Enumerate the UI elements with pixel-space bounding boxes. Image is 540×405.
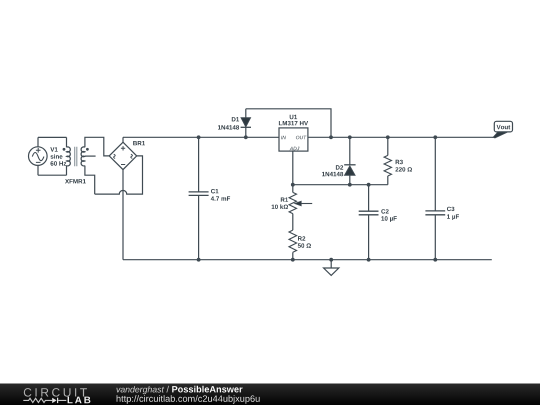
ground	[324, 260, 339, 276]
node bypass output junction	[329, 135, 333, 139]
label XFMR1	[65, 179, 86, 183]
node R3 top junction	[386, 135, 390, 139]
label D1 1N4148	[218, 117, 239, 130]
wire top rail left	[123, 136, 279, 138]
label R2 50 ohm	[298, 236, 311, 248]
capacitor C2	[359, 185, 379, 260]
label Vout	[497, 125, 511, 129]
node D2 top junction	[348, 135, 352, 139]
transformer XFMR1	[63, 137, 89, 175]
wire bottom rail	[123, 259, 492, 261]
footer credit text	[117, 386, 260, 404]
wire V1 top to transformer	[38, 136, 67, 138]
wire bridge bottom to ground rail	[122, 170, 124, 260]
pin ADJ	[290, 147, 300, 150]
node D1 output junction	[244, 135, 248, 139]
node D2 bottom junction	[348, 183, 352, 187]
wire R1 to R2	[292, 214, 294, 231]
footer bar	[0, 384, 540, 405]
wire bypass over U1	[246, 109, 331, 138]
wire V1 bottom to transformer	[38, 174, 67, 176]
node C3 bottom junction	[433, 258, 437, 262]
wire transformer secondary top to bridge	[85, 137, 109, 156]
potentiometer R1	[289, 185, 312, 214]
pin IN	[281, 136, 286, 139]
label V1 sine 60 Hz	[50, 147, 66, 165]
wire to bridge right terminal with hop	[95, 156, 143, 194]
node C2 bottom junction	[367, 258, 371, 262]
diode D2	[344, 137, 355, 184]
label C3 1 uF	[447, 207, 459, 220]
label D2 1N4148	[322, 165, 343, 176]
wire transformer secondary bottom	[85, 166, 95, 195]
label U1 LM317 HV	[279, 115, 308, 126]
label C1 4.7 mF	[211, 189, 230, 201]
node C1 top junction	[197, 135, 201, 139]
pin OUT	[296, 136, 307, 140]
node C1 bottom junction	[197, 258, 201, 262]
CircuitLab logo	[23, 388, 90, 403]
label R3 220 ohm	[395, 160, 412, 172]
node C2 top junction	[367, 183, 371, 187]
node ADJ junction	[291, 183, 295, 187]
wire ADJ pin	[292, 151, 294, 185]
capacitor C1	[189, 137, 209, 259]
diode D1	[241, 109, 251, 138]
node ground junction	[329, 258, 333, 262]
wire ADJ rail	[293, 184, 388, 186]
node Vout flag	[493, 121, 513, 138]
bridge rectifier BR1	[109, 137, 137, 169]
capacitor C3	[425, 137, 445, 259]
label C2 10 uF	[381, 209, 397, 222]
wire center tap stub	[85, 155, 96, 157]
node ground rail R2 junction	[291, 258, 295, 262]
node C3 top junction	[433, 135, 437, 139]
resistor R2	[289, 230, 297, 260]
label BR1	[133, 141, 145, 145]
label R1 10 kohm	[272, 198, 288, 210]
wire top rail right	[308, 136, 493, 138]
regulator U1 LM317	[279, 128, 308, 151]
voltage source V1	[29, 137, 48, 175]
resistor R3	[384, 137, 391, 184]
